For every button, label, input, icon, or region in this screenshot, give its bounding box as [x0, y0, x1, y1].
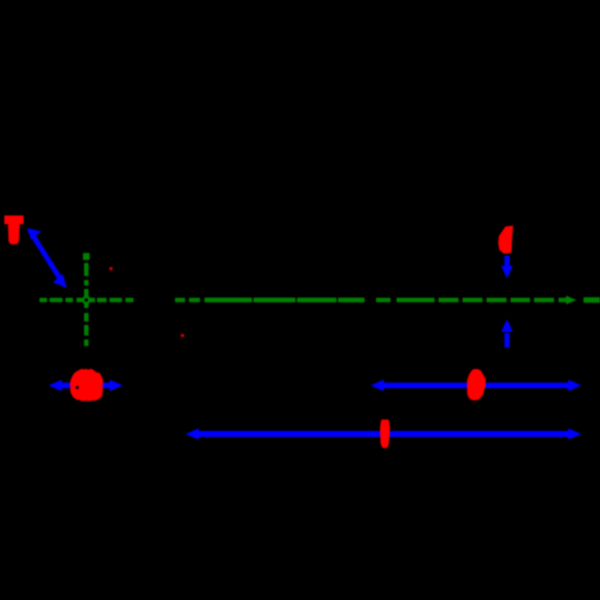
diagonal blue double arrow (object)	[27, 228, 67, 288]
bottom blue dimension double arrow	[186, 428, 582, 440]
left blue dimension double arrow	[49, 380, 123, 392]
red label blob (left dimension)	[70, 369, 103, 401]
green center ring with black hole	[83, 297, 89, 303]
small red dot B	[181, 334, 184, 337]
small red dot A	[109, 267, 112, 270]
green dashed horizontal arm of cross	[40, 298, 134, 302]
blue arrow pointing down to axis (right focal point, above)	[501, 256, 513, 279]
right blue dimension double arrow	[371, 380, 582, 392]
red label T (top left)	[4, 216, 23, 245]
green solid axis end segment at right edge	[584, 297, 600, 302]
green dashed axis ray to the right	[175, 298, 568, 302]
red label f (bottom dimension)	[380, 420, 390, 449]
red label F (above right focal point)	[498, 226, 513, 254]
red label b (right dimension)	[467, 369, 486, 400]
blue arrow pointing up to axis (right focal point, below)	[501, 319, 513, 347]
green axis arrowhead	[566, 296, 577, 305]
green dashed vertical line of cross	[83, 253, 90, 346]
